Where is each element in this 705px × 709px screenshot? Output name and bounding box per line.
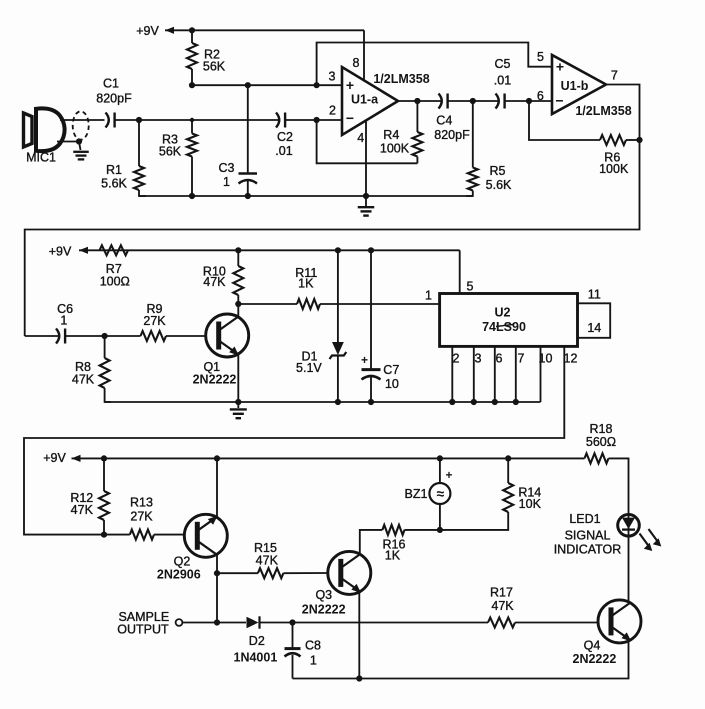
- svg-text:1K: 1K: [385, 549, 401, 563]
- wire U1-b output: [606, 85, 640, 141]
- svg-text:47K: 47K: [71, 503, 94, 517]
- svg-text:7: 7: [518, 352, 525, 366]
- resistor R13: [104, 534, 130, 536]
- junction C1 out: [136, 117, 142, 123]
- junction R12 bottom: [101, 532, 107, 538]
- svg-text:74LS90: 74LS90: [482, 320, 526, 334]
- capacitor C1: [106, 113, 109, 128]
- svg-text:1: 1: [425, 289, 432, 303]
- svg-text:47K: 47K: [72, 372, 95, 386]
- svg-text:.01: .01: [275, 144, 292, 158]
- svg-text:100Ω: 100Ω: [100, 275, 130, 289]
- pin 11 14 bracket: [578, 303, 611, 338]
- LED1 signal indicator: [628, 515, 630, 537]
- svg-text:2: 2: [329, 104, 336, 118]
- svg-text:OUTPUT: OUTPUT: [117, 623, 169, 637]
- svg-text:100K: 100K: [599, 162, 629, 176]
- svg-text:2: 2: [453, 352, 460, 366]
- transistor Q3 2N2222: [328, 551, 371, 594]
- svg-text:7: 7: [611, 68, 618, 82]
- capacitor C2: [276, 113, 279, 128]
- svg-text:1/2LM358: 1/2LM358: [373, 72, 429, 86]
- svg-text:R4: R4: [383, 128, 399, 142]
- op-amp U1-b: [552, 55, 606, 114]
- svg-text:C2: C2: [277, 130, 293, 144]
- ground mic: [79, 142, 81, 151]
- capacitor C7 electrolytic: [370, 250, 372, 369]
- svg-text:1: 1: [223, 175, 230, 189]
- junction Q3 emitter bottom: [356, 675, 362, 681]
- capacitor C3: [247, 85, 249, 173]
- transistor Q1 2N2222: [206, 314, 249, 357]
- svg-text:1N4001: 1N4001: [234, 651, 278, 665]
- svg-text:+9V: +9V: [43, 451, 66, 465]
- svg-text:5.1V: 5.1V: [296, 361, 322, 375]
- resistor R7: [100, 245, 129, 255]
- wire Q2 emitter: [216, 555, 218, 623]
- resistor R9: [141, 331, 167, 341]
- svg-text:INDICATOR: INDICATOR: [554, 543, 622, 557]
- capacitor C6: [56, 329, 59, 344]
- wire C6 to node: [66, 335, 105, 337]
- resistor R14: [507, 458, 509, 483]
- svg-text:C7: C7: [383, 363, 399, 377]
- svg-text:1K: 1K: [298, 277, 314, 291]
- svg-text:R17: R17: [490, 585, 513, 599]
- svg-text:2N2222: 2N2222: [573, 652, 617, 666]
- wire mid ground bus: [105, 401, 541, 403]
- svg-text:5: 5: [467, 280, 474, 294]
- junction pin3 bus: [471, 399, 477, 405]
- wire C5 to pin6: [505, 100, 552, 102]
- pin 6 wire: [494, 346, 496, 402]
- wire Q3 collector: [360, 530, 383, 555]
- junction pin2 node: [314, 117, 320, 123]
- junction bias node: [189, 82, 195, 88]
- wire LED to Q4 collector: [628, 536, 630, 602]
- svg-text:C4: C4: [436, 113, 452, 127]
- junction BZ1 bottom: [437, 527, 443, 533]
- svg-text:Q2: Q2: [174, 555, 191, 569]
- svg-text:560Ω: 560Ω: [586, 435, 616, 449]
- wire sample line to R17: [293, 622, 489, 624]
- wire Q4 emitter to ground rail: [293, 640, 629, 679]
- svg-text:4: 4: [357, 131, 364, 145]
- wire bottom bias line: [139, 195, 473, 197]
- junction pin6 bus: [492, 399, 498, 405]
- IC U2 74LS90: [440, 294, 578, 347]
- svg-text:10: 10: [539, 352, 553, 366]
- svg-text:47K: 47K: [203, 275, 226, 289]
- junction R12 top: [101, 455, 107, 461]
- svg-text:C5: C5: [495, 57, 511, 71]
- svg-text:D2: D2: [249, 634, 265, 648]
- svg-text:3: 3: [475, 352, 482, 366]
- resistor R18: [585, 453, 609, 463]
- svg-text:27K: 27K: [130, 509, 153, 523]
- svg-text:2N2906: 2N2906: [157, 568, 201, 582]
- resistor R8: [104, 336, 106, 358]
- svg-text:100K: 100K: [380, 142, 410, 156]
- wire C5-feed top line: [317, 43, 552, 86]
- capacitor C8: [292, 623, 294, 649]
- svg-text:U1-b: U1-b: [561, 79, 589, 93]
- svg-text:Q3: Q3: [315, 588, 332, 602]
- wire Q1 collector: [237, 304, 239, 317]
- wire signal to C2: [139, 119, 280, 121]
- svg-text:−: −: [555, 93, 563, 109]
- junction pin6 node: [526, 98, 532, 104]
- wire Q1 emitter: [237, 354, 239, 402]
- wire C4 to C5: [448, 100, 499, 102]
- junction R10 top: [235, 247, 241, 253]
- wire +9V top rail: [165, 27, 174, 34]
- svg-text:+: +: [446, 470, 453, 482]
- wire +9V mid rail: [79, 247, 88, 254]
- junction C3 bottom: [245, 193, 251, 199]
- junction pin7 bus: [513, 399, 519, 405]
- svg-text:LED1: LED1: [569, 512, 600, 526]
- ground op-amp: [365, 196, 367, 206]
- wire pin5 drop: [459, 250, 461, 293]
- wire sample output: [182, 622, 246, 624]
- ground Q1: [237, 402, 239, 408]
- svg-text:R5: R5: [490, 164, 506, 178]
- wire mic signal: [60, 119, 105, 121]
- small junction R3 cross: [190, 118, 194, 122]
- svg-text:R13: R13: [130, 496, 153, 510]
- resistor R3: [187, 134, 197, 157]
- svg-text:27K: 27K: [143, 314, 166, 328]
- svg-text:6: 6: [537, 89, 544, 103]
- transistor Q2 2N2906: [184, 514, 227, 557]
- svg-text:47K: 47K: [491, 599, 514, 613]
- svg-text:MIC1: MIC1: [26, 151, 56, 165]
- junction mic ground: [76, 138, 82, 144]
- resistor R6: [600, 135, 626, 145]
- svg-text:2N2222: 2N2222: [302, 602, 346, 616]
- svg-text:820pF: 820pF: [434, 128, 470, 142]
- junction D2 C8: [289, 619, 295, 625]
- junction R3 bottom: [189, 193, 195, 199]
- svg-text:1/2LM358: 1/2LM358: [575, 104, 631, 118]
- svg-text:5: 5: [537, 50, 544, 64]
- svg-text:+9V: +9V: [49, 244, 72, 258]
- junction pin4 ground: [363, 193, 369, 199]
- pin 12 wire to lower section: [24, 346, 564, 534]
- diode D2 1N4001: [247, 617, 259, 629]
- junction Q2 collector top: [214, 455, 220, 461]
- junction C3 top: [245, 82, 251, 88]
- pin 3 wire: [473, 346, 475, 402]
- wire +9V low rail: [72, 455, 81, 462]
- svg-text:.01: .01: [494, 74, 511, 88]
- svg-text:≈: ≈: [437, 486, 445, 502]
- junction R15 branch: [214, 570, 220, 576]
- svg-text:1: 1: [310, 654, 317, 668]
- wire Q2 collector: [216, 458, 218, 517]
- svg-text:3: 3: [329, 70, 336, 84]
- resistor R17: [488, 618, 515, 628]
- LED emission arrows: [640, 534, 650, 547]
- resistor R10: [237, 250, 239, 266]
- svg-text:1: 1: [60, 313, 67, 327]
- zener diode D1 5.1V: [337, 250, 339, 342]
- junction R14 top: [505, 455, 511, 461]
- junction BZ1 top: [437, 455, 443, 461]
- svg-text:R1: R1: [106, 163, 122, 177]
- junction R6 right: [636, 137, 642, 143]
- pin 2 wire: [451, 346, 453, 402]
- resistor R4: [412, 132, 422, 157]
- svg-text:47K: 47K: [256, 554, 279, 568]
- pin 7 wire: [515, 346, 517, 402]
- op-amp U1-a: [342, 67, 398, 135]
- resistor R1: [138, 120, 140, 166]
- svg-text:6: 6: [496, 352, 503, 366]
- resistor R2: [187, 43, 197, 69]
- wire C2 to pin2 node: [285, 119, 317, 121]
- wire bias line to pin 3: [192, 84, 342, 86]
- svg-text:+: +: [556, 59, 564, 75]
- wire U1-a feedback loop: [317, 120, 418, 163]
- capacitor C5: [496, 94, 499, 109]
- junction C6 R8 R9: [102, 333, 108, 339]
- transistor Q4 2N2222: [598, 600, 641, 643]
- junction R10 bottom: [235, 301, 241, 307]
- wire pin2 stub: [317, 119, 342, 121]
- wire U1-b feedback: [529, 101, 600, 140]
- resistor R16: [382, 525, 404, 535]
- buzzer BZ1: [439, 458, 441, 483]
- svg-text:U1-a: U1-a: [351, 93, 379, 107]
- svg-text:12: 12: [564, 352, 578, 366]
- wire C1 to junction: [115, 119, 139, 121]
- wire mic shield: [57, 141, 79, 143]
- svg-text:10K: 10K: [519, 497, 542, 511]
- pin 10 wire: [540, 346, 542, 402]
- junction Q2 emitter sample: [214, 619, 220, 625]
- svg-text:5.6K: 5.6K: [486, 178, 512, 192]
- svg-text:−: −: [346, 110, 354, 126]
- junction D1 bottom: [335, 399, 341, 405]
- svg-text:C3: C3: [219, 161, 235, 175]
- wire output down and back to C6: [25, 140, 640, 336]
- junction Q1 emitter ground: [235, 399, 241, 405]
- svg-text:10: 10: [385, 377, 399, 391]
- shield dashed ellipse: [73, 111, 89, 139]
- svg-text:C8: C8: [305, 638, 321, 652]
- junction pin2 bus: [449, 399, 455, 405]
- svg-text:BZ1: BZ1: [405, 487, 428, 501]
- junction R4 top: [414, 98, 420, 104]
- resistor R5: [472, 101, 474, 168]
- junction R5 top: [470, 98, 476, 104]
- microphone MIC1: [24, 113, 33, 147]
- resistor R11: [238, 303, 297, 305]
- junction D1 top: [335, 247, 341, 253]
- resistor R15: [217, 572, 258, 574]
- svg-text:820pF: 820pF: [96, 92, 132, 106]
- svg-text:5.6K: 5.6K: [101, 177, 127, 191]
- svg-text:14: 14: [587, 321, 601, 335]
- svg-text:U2: U2: [495, 306, 511, 320]
- wire Q3 emitter: [358, 592, 360, 679]
- resistor R12: [103, 458, 105, 491]
- junction C7 bottom: [368, 399, 374, 405]
- wire U1-a output: [398, 100, 442, 102]
- svg-text:8: 8: [353, 56, 360, 70]
- svg-text:2N2222: 2N2222: [193, 372, 237, 386]
- wire to C6: [25, 335, 60, 337]
- svg-text:11: 11: [588, 288, 601, 302]
- svg-text:Q4: Q4: [584, 639, 601, 653]
- svg-text:C1: C1: [103, 77, 119, 91]
- wire BZ1 bottom to R14: [440, 512, 508, 530]
- svg-text:56K: 56K: [203, 60, 226, 74]
- svg-text:+: +: [346, 77, 354, 93]
- svg-text:SIGNAL: SIGNAL: [565, 529, 611, 543]
- svg-text:56K: 56K: [159, 145, 182, 159]
- svg-text:+: +: [361, 353, 368, 367]
- capacitor C4: [439, 94, 442, 109]
- svg-text:R18: R18: [590, 422, 613, 436]
- junction feedback corner pin3: [314, 82, 320, 88]
- junction R2 top: [189, 27, 195, 33]
- svg-text:+9V: +9V: [136, 24, 159, 38]
- junction C7 top: [368, 247, 374, 253]
